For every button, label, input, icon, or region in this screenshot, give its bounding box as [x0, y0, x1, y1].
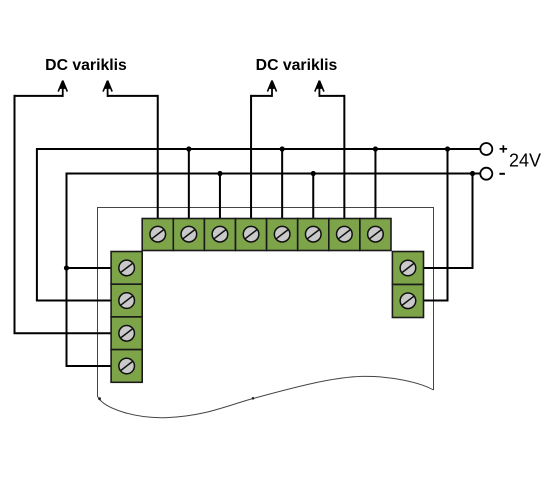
- +24V terminal circle: [480, 143, 492, 155]
- minus sign: [499, 173, 505, 175]
- -24V terminal circle: [480, 168, 492, 180]
- screws right column: [400, 260, 416, 308]
- wire: vertical into top terminal 8 (+): [374, 149, 376, 220]
- plus sign: [500, 145, 508, 152]
- wire: +24V bus horizontal: [37, 148, 480, 150]
- wire: vertical into top terminal 7: [343, 95, 345, 220]
- wire: left motor wire A horizontal (to arrow 1): [15, 95, 63, 97]
- wire: left column terminal 1 horizontal: [67, 267, 112, 269]
- wire: vertical into top terminal 2 (+): [188, 149, 190, 220]
- wire: right column terminal 2 horizontal: [424, 300, 449, 302]
- wire: vertical into top terminal 1: [157, 95, 159, 220]
- svg-text:DC variklis: DC variklis: [45, 57, 127, 74]
- junction dot T6 on - bus: [311, 171, 316, 176]
- arrow 2 (left motor): [103, 80, 112, 97]
- screws top row: [150, 226, 383, 242]
- wire: vertical into top terminal 5 (+): [281, 149, 283, 220]
- wire: + bus left drop to left terminal 2: [36, 148, 38, 301]
- board outline: [98, 208, 434, 418]
- wire: left motor wire B horizontal (from arrow 2 to T1): [108, 95, 158, 97]
- wire: left motor wire A vertical x=14.5: [14, 95, 16, 333]
- junction dot T3 on - bus: [217, 171, 222, 176]
- junction dot T5 on + bus: [280, 146, 285, 151]
- wire: vertical into top terminal 4: [250, 95, 252, 220]
- svg-text:24V: 24V: [509, 151, 541, 171]
- svg-text:DC variklis: DC variklis: [256, 57, 338, 74]
- wire: - bus left drop x=66.5: [66, 173, 68, 367]
- wire: vertical into top terminal 6 (-): [312, 174, 314, 220]
- wire: - bus right drop x=472.5 to right terminal 1: [472, 173, 474, 269]
- wire: middle motor wire A horizontal (to arrow 3): [251, 95, 272, 97]
- screws left column: [119, 260, 135, 374]
- torn-edge start blob: [98, 397, 101, 400]
- arrow 4 (middle motor): [315, 80, 324, 97]
- junction dot at - drop / terminal 1 wire: [64, 265, 69, 270]
- terminal block left column: [111, 252, 142, 383]
- arrow 1 (left motor): [58, 80, 67, 97]
- wire: -24V bus horizontal: [67, 173, 480, 175]
- arrow 3 (middle motor): [267, 80, 276, 97]
- wire: left column terminal 4 horizontal: [66, 365, 112, 367]
- wire: middle motor wire B horizontal (from arrow 4 to T7): [319, 95, 344, 97]
- junction dot - right drop: [470, 171, 475, 176]
- junction dot T8 on + bus: [373, 146, 378, 151]
- terminal block top row: [142, 219, 391, 251]
- torn-edge kink mark: [252, 397, 255, 400]
- wire: left column terminal 3 horizontal: [14, 332, 112, 334]
- wire: + bus right drop x=447.5 to right terminal 2: [447, 148, 449, 301]
- wire: right column terminal 1 horizontal: [424, 267, 474, 269]
- wire: left column terminal 2 horizontal: [36, 300, 111, 302]
- wire: vertical into top terminal 3 (-): [219, 174, 221, 220]
- junction dot T2 on + bus: [186, 146, 191, 151]
- terminal block right column: [392, 252, 423, 318]
- junction dot + right drop: [445, 146, 450, 151]
